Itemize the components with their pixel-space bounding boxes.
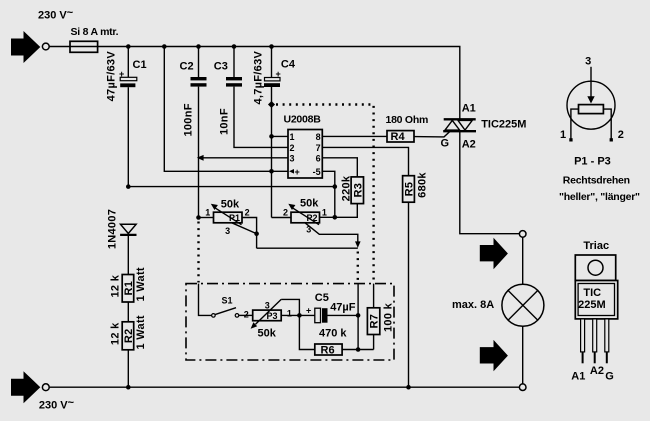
wire C1 node horizontal [128, 186, 334, 188]
svg-text:G: G [441, 137, 450, 149]
wire P1P2 common to node [257, 247, 358, 249]
wire pin8 to R4 [322, 135, 387, 137]
svg-text:7: 7 [316, 143, 321, 153]
svg-text:R4: R4 [391, 131, 406, 143]
node R2 bottom [126, 385, 131, 390]
svg-text:6: 6 [316, 153, 321, 163]
svg-text:470 k: 470 k [319, 328, 347, 340]
node P2 pin1 [333, 215, 338, 220]
svg-text:R1: R1 [123, 281, 135, 296]
node pin1 [269, 134, 274, 139]
node P1 pins 2-3 [254, 231, 259, 236]
node P1 pin1 [196, 215, 201, 220]
capacitor C2 [180, 47, 207, 218]
svg-text:2: 2 [244, 309, 249, 319]
svg-text:max. 8A: max. 8A [452, 299, 494, 311]
svg-text:47µF/63V: 47µF/63V [106, 51, 118, 102]
svg-text:-5: -5 [313, 167, 321, 177]
svg-text:47µF: 47µF [330, 301, 356, 313]
wire bottom rail [49, 386, 519, 388]
resistor R7 100k [367, 284, 394, 350]
resistor R6 470k [315, 328, 348, 357]
resistor R3 220k [341, 175, 365, 204]
lamp max 8A [452, 284, 544, 326]
svg-text:1: 1 [290, 132, 295, 142]
dash-dot enclosure [186, 284, 394, 360]
svg-text:C3: C3 [214, 61, 228, 73]
switch S1 [212, 296, 239, 318]
svg-text:A2: A2 [462, 138, 476, 150]
wire top rail [49, 47, 460, 119]
op-amp / IC U2008B [284, 114, 323, 178]
wire R2 to bottom rail [127, 350, 129, 387]
wire R5 to bottom rail [408, 202, 410, 387]
svg-text:1: 1 [287, 308, 292, 318]
svg-text:U2008B: U2008B [284, 114, 322, 126]
svg-text:10nF: 10nF [219, 108, 231, 135]
svg-text:+: + [276, 69, 281, 79]
svg-text:1: 1 [322, 208, 327, 218]
TO-220 package Triac [571, 240, 617, 383]
svg-text:1: 1 [205, 208, 210, 218]
potentiometer P1 50k [199, 198, 250, 236]
wire P3 pin3 to pin1 node [281, 299, 299, 315]
svg-text:+: + [119, 69, 124, 79]
wire P1 pin2 down [242, 218, 257, 249]
dotted wire C4 to R7 top [276, 105, 374, 283]
wire R1-R2 [127, 302, 129, 322]
wire R6 branch left [299, 315, 314, 349]
svg-text:R7: R7 [369, 314, 381, 329]
capacitor C1 [106, 47, 147, 187]
resistor R5 680k [403, 172, 429, 203]
input arrow bottom [11, 371, 40, 403]
svg-text:Triac: Triac [583, 240, 609, 252]
wire C5 to node [328, 314, 359, 316]
output arrow upper [480, 238, 508, 269]
svg-text:TIC: TIC [583, 287, 601, 299]
wire pin3 with arrow [197, 155, 288, 161]
svg-text:225M: 225M [578, 299, 606, 311]
wire triac A2 to lamp [460, 131, 520, 234]
svg-text:1: 1 [560, 129, 566, 141]
potentiometer P2 50k [272, 198, 327, 235]
svg-text:Si 8 A mtr.: Si 8 A mtr. [71, 26, 119, 38]
node dots on top rail [126, 44, 274, 49]
svg-text:C1: C1 [133, 59, 147, 71]
svg-text:100nF: 100nF [183, 103, 195, 136]
svg-text:8: 8 [316, 132, 321, 142]
svg-text:A1: A1 [462, 102, 476, 114]
svg-text:100 k: 100 k [383, 302, 395, 332]
wire pin7 to R5 [322, 147, 408, 175]
svg-text:1 Watt: 1 Watt [135, 267, 147, 301]
svg-text:+: + [295, 167, 300, 177]
svg-text:3: 3 [290, 153, 295, 163]
svg-text:3: 3 [225, 226, 230, 236]
resistor R1 12k 1 Watt [109, 267, 147, 302]
svg-text:4,7µF/63V: 4,7µF/63V [253, 51, 265, 105]
wire P3 pin1 to C5 [281, 314, 315, 316]
terminal circle bottom-left [42, 384, 49, 391]
svg-text:C4: C4 [281, 58, 296, 70]
svg-text:12 k: 12 k [109, 274, 121, 297]
wire pin5 [322, 171, 335, 217]
terminal circle lamp bottom [519, 384, 526, 391]
svg-text:R3: R3 [352, 183, 364, 198]
resistor R4 180 Ohm [386, 114, 429, 143]
node C5 right [356, 313, 361, 318]
svg-text:680k: 680k [417, 172, 429, 198]
wire R4 to gate [414, 132, 450, 137]
dotted wire node to dash box [357, 252, 359, 283]
svg-text:"heller", "länger": "heller", "länger" [559, 191, 640, 203]
svg-text:G: G [605, 371, 614, 383]
wire pin6 to R3 [322, 158, 357, 177]
svg-text:2: 2 [290, 143, 295, 153]
svg-text:Rechtsdrehen: Rechtsdrehen [563, 175, 630, 187]
capacitor C4 [253, 47, 296, 218]
svg-text:P1 - P3: P1 - P3 [574, 156, 611, 168]
svg-text:3: 3 [585, 56, 591, 68]
resistor R2 12k 1 Watt [109, 315, 147, 350]
input arrow top [11, 31, 40, 63]
svg-text:TIC225M: TIC225M [481, 119, 526, 131]
svg-text:A1: A1 [571, 371, 585, 383]
capacitor C3 [214, 47, 288, 148]
wire S1 to P3 [239, 314, 253, 316]
arrow P2 pin3 to node [355, 241, 361, 248]
knob P1-P3 [560, 56, 624, 142]
wire P2 pin3 lead [305, 223, 358, 244]
potentiometer P3 50k [244, 299, 292, 339]
svg-text:1N4007: 1N4007 [107, 209, 119, 249]
wire to lamp [522, 237, 524, 284]
capacitor C5 47uF [306, 292, 356, 323]
svg-text:220k: 220k [341, 175, 353, 201]
svg-text:R5: R5 [404, 182, 416, 197]
fuse Si 8 A mtr. [70, 41, 98, 52]
wire lamp to bottom terminal [522, 326, 524, 384]
svg-text:2: 2 [618, 129, 624, 141]
dotted wire P1 pin1 to dash box [197, 222, 199, 283]
svg-text:180 Ohm: 180 Ohm [386, 114, 429, 126]
output arrow lower [480, 340, 508, 371]
wire R3 to P2 pin1 [320, 204, 358, 218]
wire vertical node x358 [357, 284, 359, 350]
wire into box to S1 [199, 284, 212, 316]
svg-text:C2: C2 [180, 61, 194, 73]
svg-text:S1: S1 [222, 296, 233, 306]
diode 1N4007 [107, 209, 137, 275]
node P3 pin1 [297, 313, 302, 318]
node C4 bottom diamond [268, 101, 275, 108]
svg-text:12 k: 12 k [109, 322, 121, 345]
svg-text:1 Watt: 1 Watt [135, 315, 147, 349]
svg-text:50k: 50k [221, 198, 240, 210]
svg-text:2: 2 [283, 208, 288, 218]
node C1 bottom [126, 184, 131, 189]
node pin5 wire joins [333, 184, 338, 189]
svg-text:3: 3 [265, 300, 270, 310]
node R5 bottom [406, 385, 411, 390]
node R6 right [356, 347, 361, 352]
svg-text:R2: R2 [123, 328, 135, 343]
svg-text:R6: R6 [321, 344, 335, 356]
terminal circle lamp top [519, 231, 526, 238]
wire P1 pin3 lead [232, 223, 257, 234]
svg-text:2: 2 [245, 208, 250, 218]
node pin4 [269, 169, 274, 174]
wire R6 right to R7 bottom [342, 349, 374, 351]
terminal circle top-left [42, 43, 49, 50]
svg-text:A2: A2 [590, 365, 604, 377]
wire pin1 [272, 135, 289, 137]
svg-text:50k: 50k [258, 328, 277, 340]
wire x164 to pin4 [164, 47, 288, 172]
triac TIC225M [441, 102, 527, 150]
svg-text:+: + [306, 305, 311, 315]
svg-text:C5: C5 [315, 292, 329, 304]
svg-text:50k: 50k [300, 198, 319, 210]
